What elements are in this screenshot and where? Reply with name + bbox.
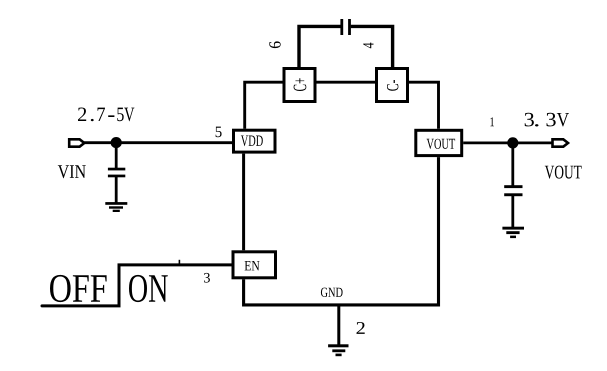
label VOUT (output) [545, 166, 582, 179]
pin name C+ (rotated) [294, 78, 307, 91]
signal step waveform OFF/ON [42, 265, 232, 306]
label GND [321, 288, 343, 297]
pin name C- (rotated) [387, 80, 398, 91]
pin name VDD [241, 136, 263, 147]
wire EN to GND rail to VOUT (IC bottom) [244, 157, 439, 305]
node VOUT junction [507, 137, 518, 148]
label OFF [50, 275, 107, 302]
label 3.3V [525, 113, 569, 127]
capacitor C3 (output) [504, 143, 522, 227]
IC pin box VOUT [416, 130, 462, 155]
wire VIN to VDD pin [84, 141, 232, 144]
IC pin box EN [233, 252, 276, 278]
ground (input) [105, 202, 127, 212]
capacitor C2 (flying) [340, 19, 351, 35]
wire VOUT to output terminal [463, 141, 552, 144]
IC pin box VDD [234, 130, 276, 152]
pin tick EN [178, 260, 180, 265]
wire VDD to EN (IC left side) [242, 154, 245, 251]
wire C- top pin [351, 26, 393, 68]
terminal VOUT [553, 139, 569, 146]
label ON [129, 275, 168, 302]
wire C+ top pin [299, 26, 341, 68]
capacitor C1 (input) [108, 143, 125, 203]
IC pin box C+ [284, 69, 315, 102]
wire GND drop [337, 306, 340, 345]
pin number 1 [490, 117, 494, 126]
pin number 2 [357, 322, 365, 334]
pin number 4 (rotated) [363, 43, 373, 49]
pin number 5 [216, 127, 222, 138]
ground (output) [502, 227, 524, 238]
label 2.7-5V [78, 108, 134, 122]
pin number 3 [204, 273, 210, 283]
ground (GND pin) [328, 344, 348, 356]
wire C- to VOUT pin [409, 82, 439, 129]
IC pin box C- [377, 69, 408, 102]
pin number 6 (rotated) [269, 41, 280, 48]
terminal VIN [69, 139, 84, 146]
pin name VOUT [427, 139, 456, 149]
wire C+ to C- [317, 81, 376, 84]
pin name EN [245, 261, 260, 270]
label VIN [58, 165, 86, 178]
wire VDD up to C+ pin [245, 82, 283, 129]
node VIN junction [111, 137, 122, 148]
